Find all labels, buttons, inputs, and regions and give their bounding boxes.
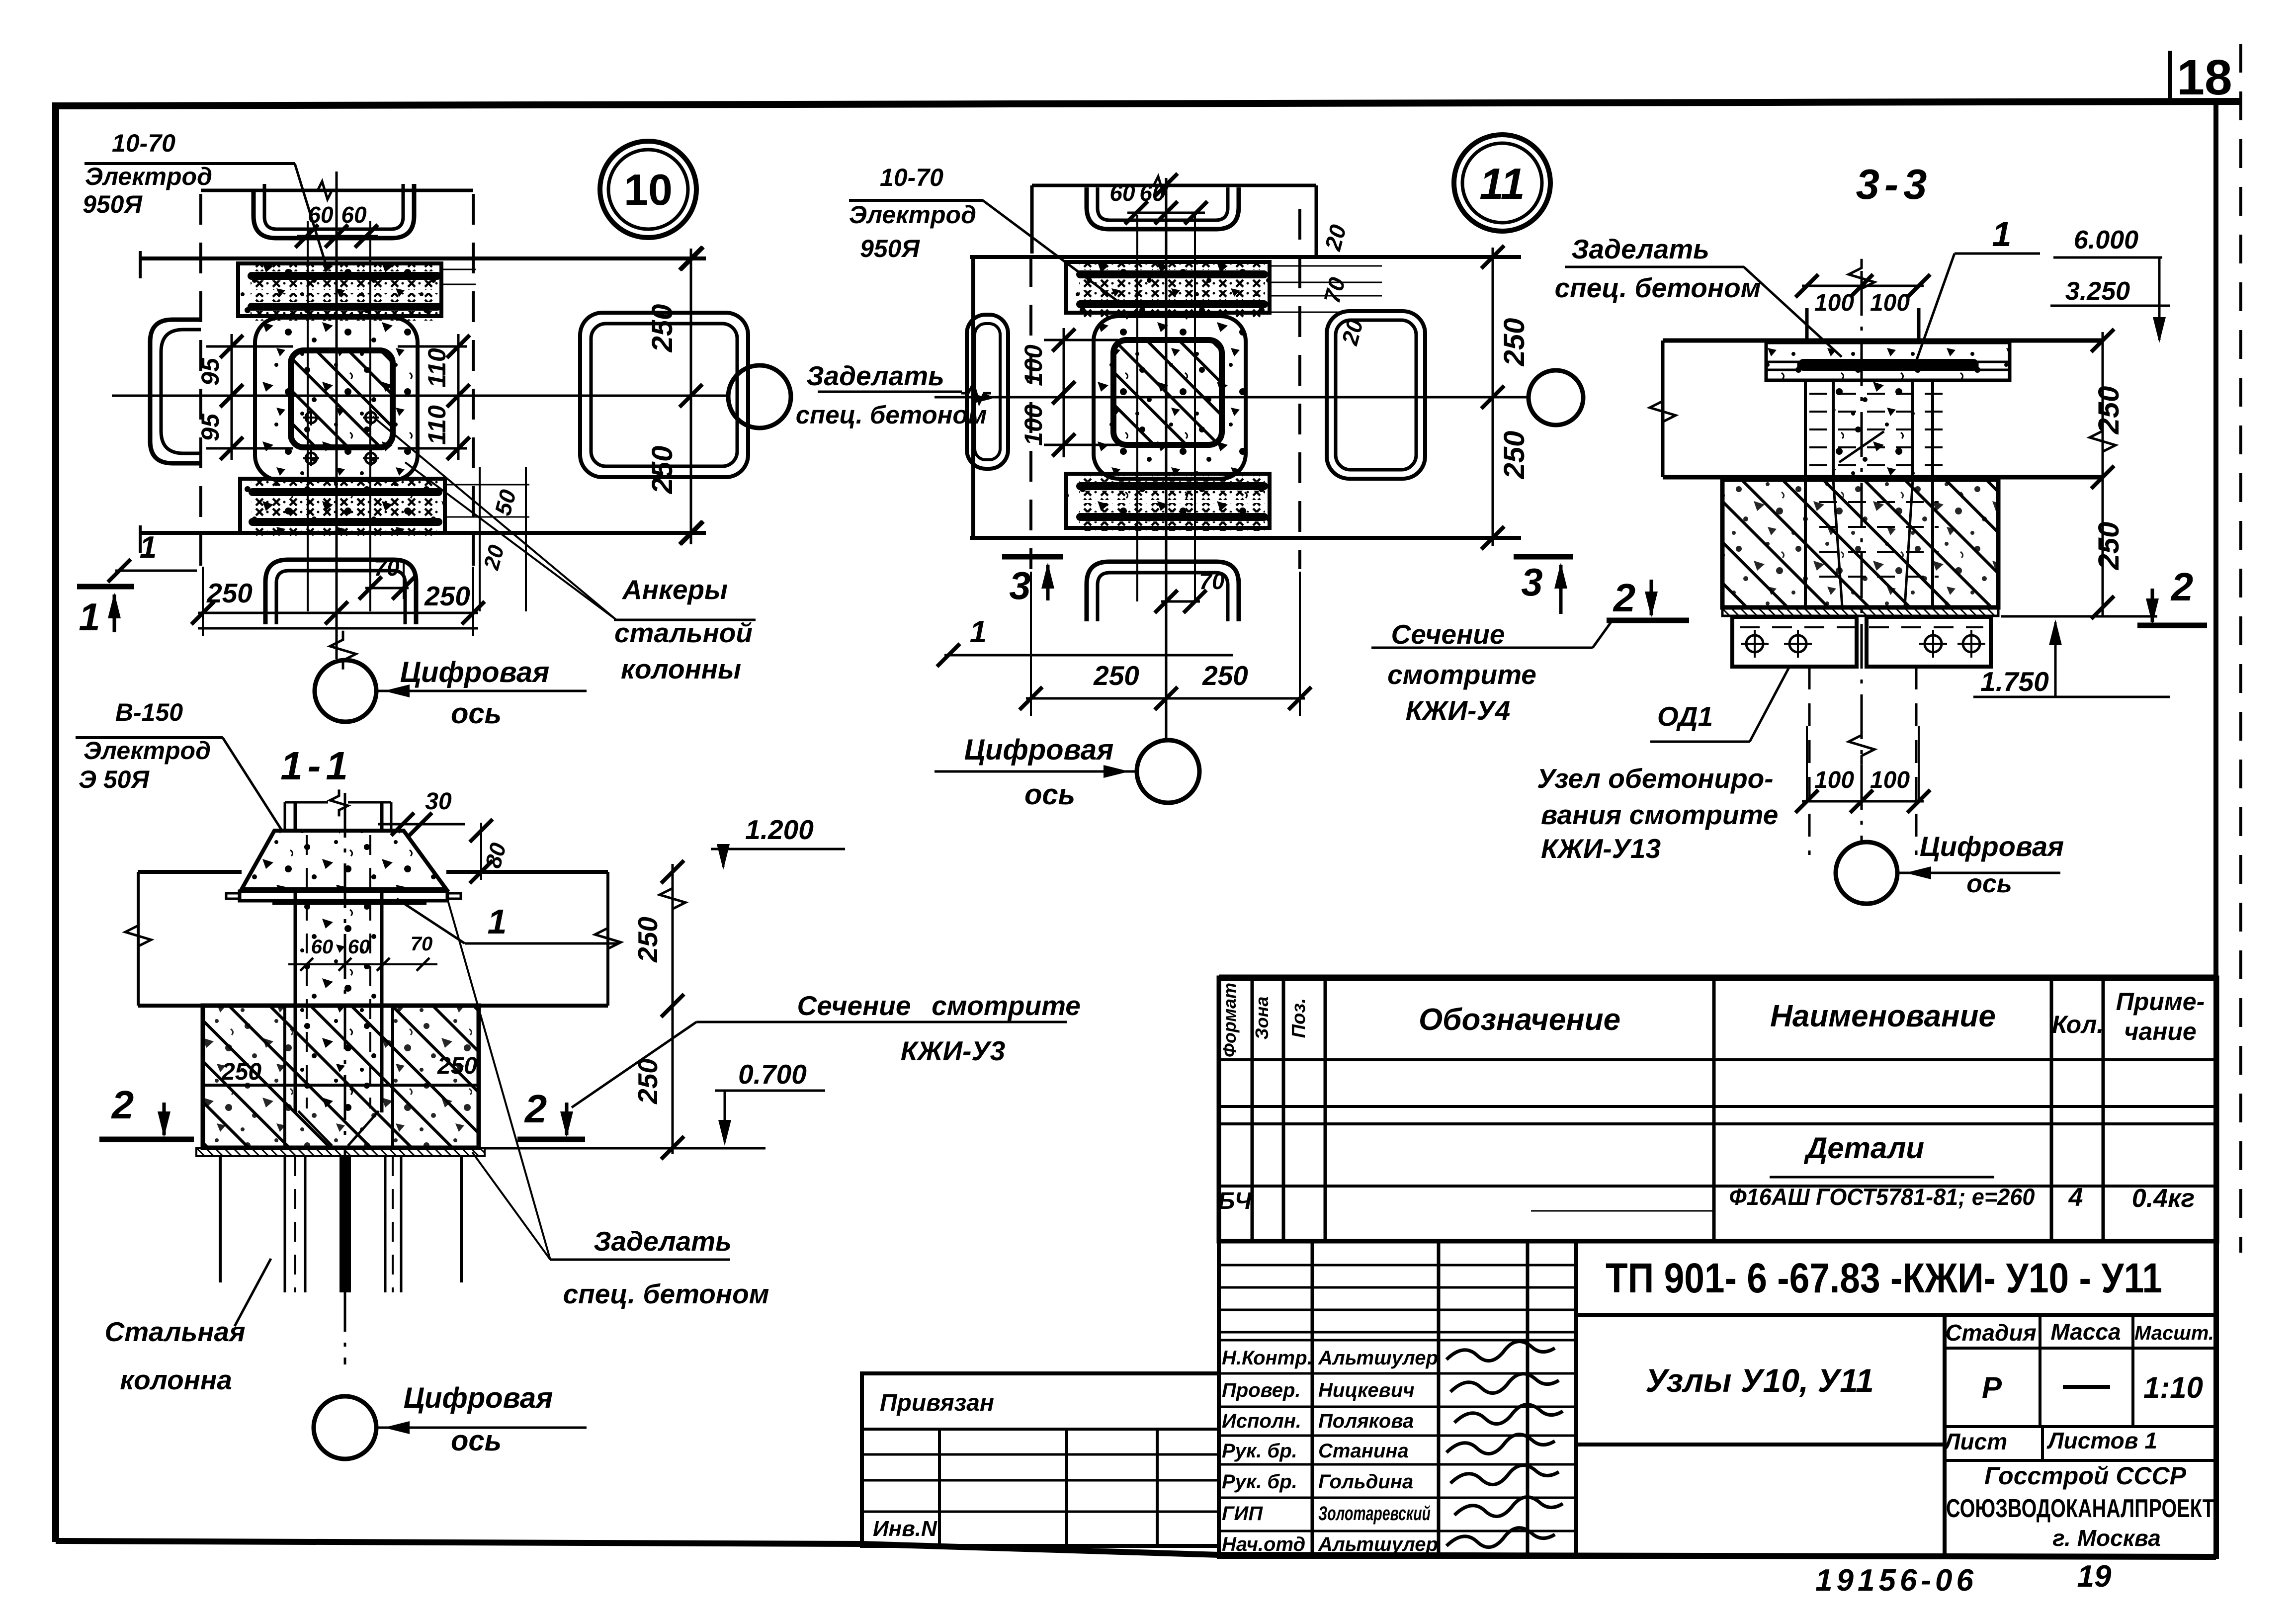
- svg-text:100: 100: [1814, 767, 1854, 793]
- svg-text:1:10: 1:10: [2143, 1371, 2203, 1404]
- svg-text:250: 250: [424, 581, 470, 611]
- svg-text:70: 70: [411, 933, 433, 955]
- svg-text:250: 250: [1202, 660, 1248, 691]
- svg-text:смотрите: смотрите: [932, 990, 1081, 1021]
- svg-text:ось: ось: [1966, 869, 2012, 898]
- svg-text:1: 1: [488, 902, 507, 941]
- svg-text:Узел обетониро-: Узел обетониро-: [1537, 763, 1774, 794]
- svg-text:Сечение: Сечение: [797, 990, 911, 1021]
- svg-text:250: 250: [2093, 522, 2125, 571]
- svg-text:10-70: 10-70: [112, 129, 175, 157]
- svg-text:10: 10: [624, 165, 673, 214]
- svg-text:Инв.N: Инв.N: [873, 1517, 937, 1541]
- svg-text:Провер.: Провер.: [1222, 1379, 1301, 1401]
- svg-text:г. Москва: г. Москва: [2052, 1525, 2161, 1551]
- svg-text:6.000: 6.000: [2074, 226, 2138, 255]
- svg-text:Нач.отд: Нач.отд: [1222, 1533, 1305, 1555]
- svg-text:Золотаревский: Золотаревский: [1318, 1503, 1431, 1525]
- svg-text:Обозначение: Обозначение: [1419, 1003, 1620, 1037]
- svg-text:Цифровая: Цифровая: [404, 1382, 553, 1414]
- svg-text:1: 1: [1992, 215, 2012, 254]
- svg-text:Рук. бр.: Рук. бр.: [1222, 1471, 1297, 1493]
- svg-text:Заделать: Заделать: [594, 1226, 732, 1257]
- svg-text:250: 250: [1498, 431, 1531, 480]
- svg-text:1: 1: [79, 595, 100, 639]
- svg-text:ось: ось: [451, 1425, 502, 1457]
- svg-text:В-150: В-150: [115, 698, 183, 726]
- svg-text:Узлы У10, У11: Узлы У10, У11: [1645, 1362, 1874, 1399]
- svg-text:Госстрой СССР: Госстрой СССР: [1984, 1462, 2187, 1490]
- svg-text:30: 30: [425, 788, 452, 815]
- svg-text:950Я: 950Я: [860, 235, 920, 262]
- svg-text:Цифровая: Цифровая: [1920, 831, 2064, 862]
- svg-text:1.750: 1.750: [1980, 666, 2049, 697]
- svg-text:Альтшулер: Альтшулер: [1318, 1533, 1438, 1555]
- svg-text:спец. бетоном: спец. бетоном: [796, 401, 987, 429]
- svg-text:Р: Р: [1982, 1371, 2002, 1404]
- svg-text:СОЮЗВОДОКАНАЛПРОЕКТ: СОЮЗВОДОКАНАЛПРОЕКТ: [1946, 1494, 2214, 1523]
- svg-text:спец. бетоном: спец. бетоном: [1555, 272, 1761, 303]
- svg-text:Приме-: Приме-: [2116, 988, 2205, 1016]
- svg-text:Листов 1: Листов 1: [2046, 1428, 2157, 1453]
- svg-text:250: 250: [632, 917, 663, 963]
- svg-text:Детали: Детали: [1803, 1131, 1924, 1165]
- svg-text:2: 2: [2170, 565, 2194, 609]
- svg-text:19: 19: [2077, 1559, 2112, 1594]
- svg-text:11: 11: [1479, 159, 1525, 208]
- svg-text:Ф16АШ ГОСТ5781-81; е=260: Ф16АШ ГОСТ5781-81; е=260: [1729, 1184, 2035, 1210]
- svg-text:Э 50Я: Э 50Я: [79, 766, 150, 793]
- svg-text:колонны: колонны: [621, 654, 741, 684]
- svg-text:3: 3: [1521, 560, 1542, 604]
- svg-text:2: 2: [1613, 576, 1636, 620]
- svg-text:ось: ось: [451, 697, 502, 730]
- svg-text:0.700: 0.700: [738, 1059, 807, 1090]
- svg-text:Н.Контр.: Н.Контр.: [1222, 1347, 1313, 1369]
- svg-text:95: 95: [196, 357, 224, 386]
- svg-text:Полякова: Полякова: [1318, 1410, 1414, 1432]
- svg-text:стальной: стальной: [614, 617, 753, 648]
- svg-text:18: 18: [2177, 50, 2232, 105]
- svg-text:Цифровая: Цифровая: [964, 734, 1114, 766]
- svg-text:КЖИ-У4: КЖИ-У4: [1406, 695, 1511, 726]
- svg-text:3-3: 3-3: [1856, 161, 1932, 208]
- svg-text:250: 250: [632, 1058, 663, 1105]
- svg-text:ось: ось: [1024, 778, 1075, 811]
- svg-text:250: 250: [646, 446, 679, 495]
- svg-text:19156-06: 19156-06: [1815, 1563, 1977, 1598]
- svg-text:Электрод: Электрод: [849, 201, 976, 229]
- svg-text:Зона: Зона: [1252, 997, 1272, 1040]
- svg-text:Станина: Станина: [1318, 1440, 1409, 1462]
- svg-text:60: 60: [1109, 180, 1135, 206]
- svg-text:спец. бетоном: спец. бетоном: [563, 1278, 769, 1309]
- svg-text:1: 1: [970, 615, 987, 649]
- svg-text:4: 4: [2068, 1183, 2083, 1212]
- svg-text:100: 100: [1870, 290, 1910, 316]
- svg-text:60: 60: [341, 202, 367, 228]
- svg-text:60: 60: [348, 936, 370, 958]
- svg-text:Привязан: Привязан: [880, 1390, 994, 1416]
- svg-text:Цифровая: Цифровая: [400, 656, 550, 688]
- svg-text:вания смотрите: вания смотрите: [1541, 799, 1778, 830]
- svg-text:1.200: 1.200: [745, 814, 814, 845]
- svg-text:Электрод: Электрод: [84, 737, 211, 765]
- svg-text:Наименование: Наименование: [1770, 999, 1996, 1033]
- svg-text:Ницкевич: Ницкевич: [1318, 1379, 1415, 1401]
- svg-text:Исполн.: Исполн.: [1222, 1410, 1301, 1432]
- svg-text:чание: чание: [2124, 1018, 2197, 1045]
- svg-text:60: 60: [311, 936, 334, 958]
- svg-text:Масса: Масса: [2050, 1319, 2121, 1345]
- svg-text:100: 100: [1020, 344, 1047, 386]
- svg-text:70: 70: [374, 555, 400, 581]
- svg-text:95: 95: [196, 413, 224, 441]
- svg-text:Сечение: Сечение: [1391, 619, 1505, 650]
- svg-text:2: 2: [111, 1083, 134, 1127]
- svg-text:Лист: Лист: [1943, 1429, 2007, 1454]
- svg-text:ГИП: ГИП: [1222, 1503, 1263, 1525]
- svg-text:КЖИ-У13: КЖИ-У13: [1541, 833, 1661, 864]
- svg-text:3.250: 3.250: [2065, 277, 2130, 306]
- svg-text:1-1: 1-1: [280, 744, 353, 788]
- svg-text:Масшт.: Масшт.: [2134, 1322, 2214, 1344]
- svg-text:100: 100: [1814, 290, 1854, 316]
- svg-text:250: 250: [221, 1059, 261, 1085]
- svg-text:110: 110: [423, 348, 451, 388]
- svg-text:КЖИ-У3: КЖИ-У3: [901, 1035, 1006, 1066]
- svg-text:Кол.: Кол.: [2052, 1011, 2104, 1038]
- svg-text:250: 250: [1093, 660, 1139, 691]
- svg-text:70: 70: [1199, 568, 1225, 594]
- svg-text:250: 250: [1498, 318, 1531, 367]
- svg-text:10-70: 10-70: [880, 164, 943, 191]
- svg-text:2: 2: [524, 1087, 547, 1131]
- svg-text:110: 110: [423, 405, 451, 445]
- svg-text:3: 3: [1009, 564, 1030, 607]
- svg-text:0.4кг: 0.4кг: [2132, 1184, 2195, 1213]
- svg-text:Стадия: Стадия: [1945, 1320, 2036, 1346]
- svg-text:Гольдина: Гольдина: [1318, 1471, 1413, 1493]
- svg-text:950Я: 950Я: [83, 190, 143, 218]
- svg-text:100: 100: [1870, 767, 1910, 793]
- svg-text:250: 250: [437, 1053, 477, 1079]
- svg-text:1: 1: [140, 530, 157, 565]
- svg-text:Рук. бр.: Рук. бр.: [1222, 1440, 1297, 1462]
- svg-text:Анкеры: Анкеры: [621, 574, 728, 605]
- svg-text:250: 250: [2093, 386, 2125, 435]
- svg-text:ТП 901- 6 -67.83 -КЖИ- У10 -: ТП 901- 6 -67.83 -КЖИ- У10 - У11: [1606, 1255, 2162, 1301]
- svg-text:Электрод: Электрод: [85, 163, 212, 190]
- svg-text:колонна: колонна: [120, 1364, 232, 1395]
- svg-text:смотрите: смотрите: [1387, 659, 1536, 690]
- svg-text:БЧ: БЧ: [1218, 1188, 1252, 1214]
- svg-text:ОД1: ОД1: [1657, 701, 1713, 732]
- svg-text:100: 100: [1020, 404, 1047, 446]
- svg-text:Формат: Формат: [1219, 983, 1240, 1057]
- svg-text:Стальная: Стальная: [105, 1316, 246, 1347]
- svg-text:250: 250: [646, 304, 679, 353]
- svg-text:250: 250: [206, 578, 253, 608]
- svg-text:Заделать: Заделать: [806, 360, 944, 391]
- svg-text:60: 60: [1139, 180, 1165, 206]
- svg-text:Альтшулер: Альтшулер: [1318, 1347, 1438, 1369]
- svg-text:Поз.: Поз.: [1288, 998, 1309, 1038]
- svg-text:Заделать: Заделать: [1571, 234, 1709, 264]
